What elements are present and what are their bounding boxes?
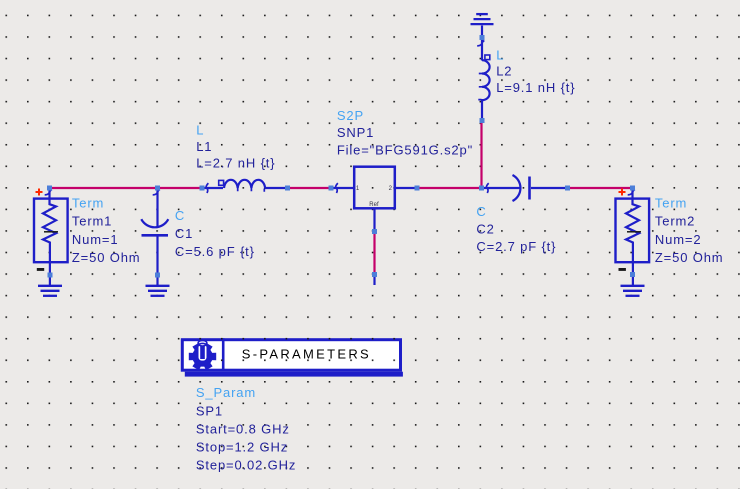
svg-text:Term: Term — [72, 196, 104, 211]
svg-text:C: C — [175, 208, 185, 223]
svg-text:C2: C2 — [476, 222, 494, 237]
svg-text:SP1: SP1 — [196, 404, 223, 419]
svg-text:L2: L2 — [496, 63, 512, 78]
svg-text:Step=0.02 GHz: Step=0.02 GHz — [196, 457, 296, 472]
svg-text:L: L — [496, 47, 504, 62]
svg-text:C1: C1 — [175, 226, 193, 241]
svg-text:S_Param: S_Param — [196, 385, 256, 400]
svg-text:Z=50 Ohm: Z=50 Ohm — [655, 250, 724, 265]
svg-text:Num=1: Num=1 — [72, 232, 119, 247]
svg-text:File="BFG591G.s2p": File="BFG591G.s2p" — [337, 143, 473, 158]
svg-text:Term: Term — [655, 196, 687, 211]
svg-text:Start=0.8 GHz: Start=0.8 GHz — [196, 422, 290, 437]
svg-text:L: L — [196, 122, 204, 137]
svg-text:Num=2: Num=2 — [655, 232, 702, 247]
svg-text:L=2.7 nH {t}: L=2.7 nH {t} — [196, 155, 275, 170]
svg-text:Stop=1.2 GHz: Stop=1.2 GHz — [196, 439, 288, 454]
svg-text:Term1: Term1 — [72, 214, 112, 229]
svg-text:C=5.6 pF {t}: C=5.6 pF {t} — [175, 244, 255, 259]
svg-text:C: C — [476, 204, 486, 219]
svg-text:Ref: Ref — [369, 202, 379, 208]
svg-text:C=2.7 pF {t}: C=2.7 pF {t} — [476, 239, 556, 254]
svg-text:S-PARAMETERS: S-PARAMETERS — [242, 347, 371, 362]
svg-text:S2P: S2P — [337, 108, 364, 123]
svg-text:SNP1: SNP1 — [337, 125, 374, 140]
svg-text:Term2: Term2 — [655, 214, 695, 229]
svg-text:L1: L1 — [196, 139, 212, 154]
svg-text:Z=50 Ohm: Z=50 Ohm — [72, 250, 141, 265]
svg-text:L=9.1 nH {t}: L=9.1 nH {t} — [496, 80, 575, 95]
